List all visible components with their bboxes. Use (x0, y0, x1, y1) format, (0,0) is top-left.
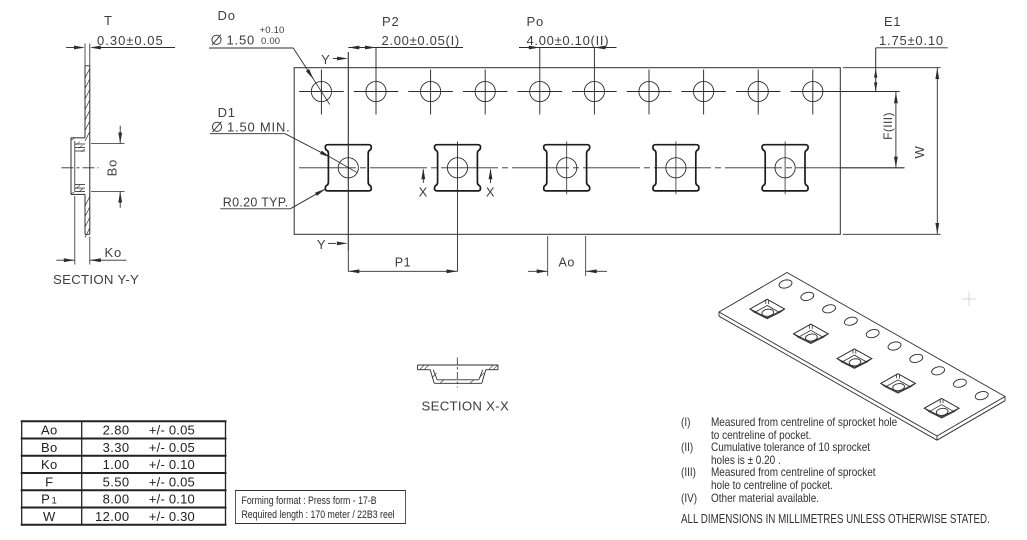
svg-text:Ao: Ao (558, 256, 575, 270)
svg-text:2.00±0.05(I): 2.00±0.05(I) (382, 33, 460, 48)
svg-text:Y: Y (317, 237, 326, 252)
svg-text:T: T (104, 13, 113, 28)
svg-text:+0.10: +0.10 (260, 25, 285, 36)
svg-text:+/- 0.05: +/- 0.05 (149, 423, 195, 438)
svg-text:F(III): F(III) (881, 112, 895, 140)
svg-text:+/- 0.10: +/- 0.10 (149, 457, 195, 472)
svg-text:0.30±0.05: 0.30±0.05 (97, 33, 164, 48)
svg-text:1.50: 1.50 (227, 32, 256, 47)
svg-text:Do: Do (218, 8, 236, 23)
svg-text:+/- 0.05: +/- 0.05 (149, 474, 195, 489)
svg-text:D1: D1 (218, 105, 236, 120)
svg-text:+/- 0.30: +/- 0.30 (149, 509, 195, 524)
svg-text:P2: P2 (382, 14, 400, 29)
svg-text:SECTION X-X: SECTION X-X (422, 399, 510, 414)
svg-text:12.00: 12.00 (95, 509, 130, 524)
svg-text:8.00: 8.00 (103, 492, 130, 507)
svg-text:P: P (41, 492, 50, 507)
svg-text:W: W (43, 509, 56, 524)
svg-text:Bo: Bo (41, 440, 58, 455)
svg-text:0.00: 0.00 (261, 36, 280, 47)
svg-text:Ao: Ao (41, 423, 58, 438)
svg-text:SECTION Y-Y: SECTION Y-Y (53, 272, 139, 287)
svg-text:1.75±0.10: 1.75±0.10 (879, 33, 944, 48)
svg-text:Bo: Bo (105, 159, 120, 177)
svg-text:4.00±0.10(II): 4.00±0.10(II) (527, 33, 610, 48)
svg-text:P1: P1 (395, 256, 412, 270)
svg-text:Ko: Ko (41, 457, 58, 472)
svg-text:Po: Po (527, 14, 545, 29)
svg-text:1.50 MIN.: 1.50 MIN. (227, 119, 291, 134)
svg-text:2.80: 2.80 (103, 423, 130, 438)
svg-text:F: F (45, 474, 53, 489)
svg-text:X: X (419, 185, 428, 200)
svg-text:5.50: 5.50 (103, 474, 130, 489)
svg-text:3.30: 3.30 (103, 440, 130, 455)
svg-text:+/- 0.05: +/- 0.05 (149, 440, 195, 455)
svg-text:W: W (912, 145, 927, 158)
svg-text:E1: E1 (884, 14, 901, 29)
svg-text:R0.20 TYP.: R0.20 TYP. (223, 195, 289, 209)
svg-text:Ko: Ko (105, 245, 123, 260)
svg-text:Y: Y (321, 52, 330, 67)
svg-text:+/- 0.10: +/- 0.10 (149, 492, 195, 507)
svg-text:X: X (486, 185, 495, 200)
svg-text:1: 1 (52, 496, 57, 507)
svg-text:1.00: 1.00 (103, 457, 130, 472)
